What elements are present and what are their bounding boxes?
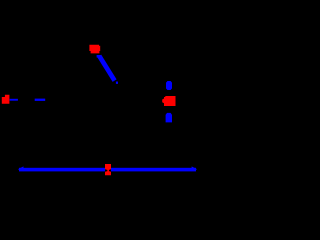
horizontal dashed line, dash 2: [35, 99, 46, 101]
label v0 (red, top center): [89, 45, 100, 54]
right arrowhead of dimension line: [192, 166, 198, 171]
label h (red, right): [162, 96, 175, 106]
label x (red, bottom center): [105, 164, 111, 175]
label d (red, left): [2, 95, 10, 104]
black backing box of label x: [105, 164, 111, 175]
velocity vector (blue dashed diagonal): [99, 56, 114, 81]
horizontal dashed line, dash 1: [10, 99, 18, 101]
down arrowhead blob (blue, right): [166, 113, 172, 123]
left arrowhead of dimension line: [18, 166, 24, 171]
velocity vector end dash: [116, 82, 118, 84]
velocity vector start block: [97, 55, 102, 58]
dimension line x (blue, bottom): [19, 168, 196, 172]
up arrowhead blob (blue, right): [166, 81, 172, 90]
